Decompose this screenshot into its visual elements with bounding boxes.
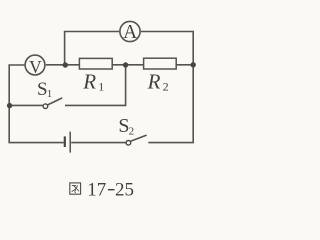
svg-text:17: 17	[87, 179, 106, 200]
svg-text:R: R	[82, 69, 96, 93]
svg-text:1: 1	[98, 80, 104, 94]
svg-text:1: 1	[47, 88, 53, 100]
svg-text:2: 2	[163, 80, 169, 94]
svg-text:2: 2	[129, 126, 135, 138]
svg-text:R: R	[147, 70, 161, 94]
svg-text:A: A	[123, 22, 137, 43]
svg-text:V: V	[29, 57, 42, 77]
svg-text:25: 25	[115, 179, 134, 200]
